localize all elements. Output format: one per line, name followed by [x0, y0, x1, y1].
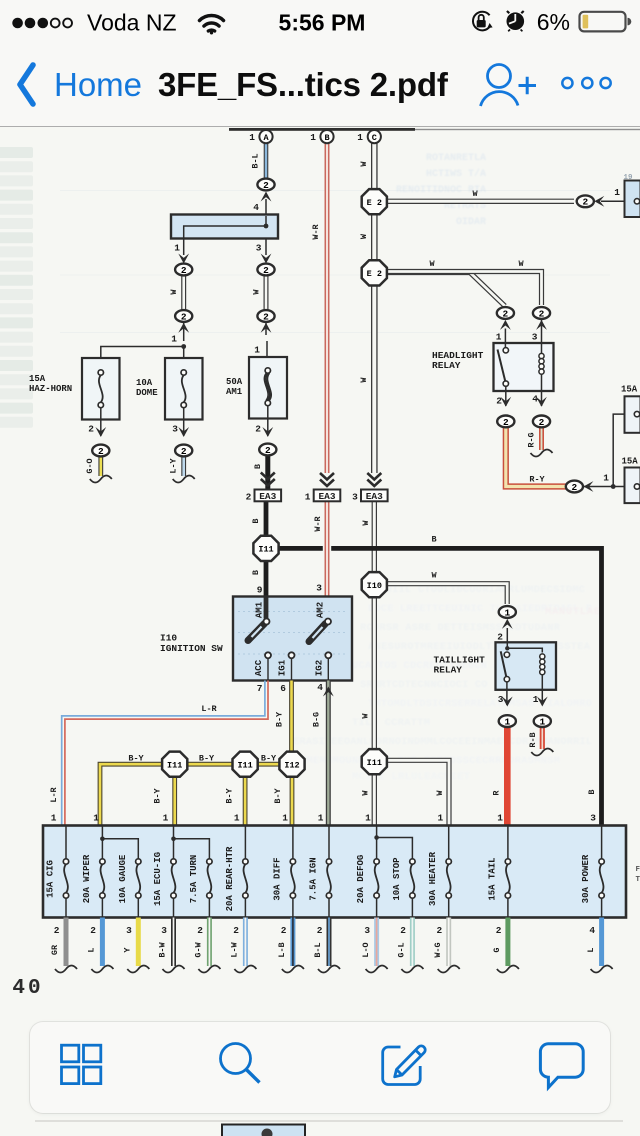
headlight relay coil [539, 343, 544, 391]
svg-text:10A STOP: 10A STOP [392, 857, 402, 901]
wire lead into right edge box [601, 200, 625, 202]
svg-text:AM1: AM1 [226, 387, 243, 397]
ignition switch contact AM1 [248, 619, 270, 641]
svg-text:EA3: EA3 [366, 491, 383, 502]
component box 15A (lower right) [625, 468, 640, 504]
wire R-G stub [539, 427, 544, 450]
connector 2 (R-Y to fuses) [566, 481, 583, 493]
connector octagon I10 (I10 on W wire) [362, 572, 387, 597]
wire B-W stub [171, 918, 176, 967]
svg-text:L-O: L-O [361, 942, 371, 957]
wire B-Y from IG1 to I12 [289, 681, 294, 753]
svg-text:B-Y: B-Y [153, 787, 163, 803]
wire G-L stub [410, 918, 415, 967]
wire B-Y bus to WIPER / ECU-IG / REAR-HTR / DIFF fuses [100, 764, 292, 825]
fuse 20A WIPER [82, 826, 105, 918]
wire end (L-Y) [173, 476, 195, 483]
svg-text:L: L [586, 947, 596, 952]
fuse 30A DIFF [272, 826, 295, 918]
connector 2 right branch lower [257, 310, 274, 322]
connector 2 below HAZ-HORN [92, 445, 109, 457]
wire end (W-G) [438, 966, 460, 973]
wire end (G-W) [198, 966, 220, 973]
wire R-Y from headlight relay to 15A fuse [506, 427, 566, 486]
component box (right edge, E2 target) [625, 181, 640, 218]
wire A column into junction block [265, 199, 267, 215]
wire G stub [505, 918, 510, 967]
page bleed-through text (middle) [293, 584, 600, 783]
alarm clock icon [507, 11, 525, 31]
connector 2 below DOME [175, 445, 192, 457]
connector 2 (R-G wire) [533, 416, 550, 428]
fuse element 50A AM1 [264, 368, 271, 406]
svg-text:2: 2 [246, 492, 252, 503]
wire arrowhead (into connector below headlight relay (R-G)) [536, 397, 547, 407]
fuse 20A REAR-HTR [225, 826, 248, 918]
svg-text:15A TAIL: 15A TAIL [487, 857, 497, 900]
svg-text:2: 2 [197, 925, 203, 936]
svg-text:1: 1 [310, 132, 316, 143]
fuse 10A STOP [392, 857, 415, 918]
svg-text:15A: 15A [622, 457, 639, 467]
svg-text:2: 2 [98, 446, 104, 457]
wire headlight relay pin 1 lead [504, 329, 506, 348]
connector 2 (to right box) [577, 195, 594, 207]
connector circle C [368, 130, 381, 143]
wire end (Y) [127, 966, 149, 973]
wire arrowhead (into connector left branch lower) [178, 323, 189, 333]
svg-text:2: 2 [263, 311, 269, 322]
svg-text:40: 40 [12, 977, 43, 1000]
svg-text:7.5A TURN: 7.5A TURN [189, 855, 199, 904]
wire L-O stub [374, 918, 379, 967]
svg-text:1: 1 [171, 334, 177, 345]
taillight relay internal node [505, 646, 542, 652]
wire W from E2 to headlight relay pin 3 [386, 272, 542, 306]
node junction (15A fuse feed) [611, 484, 616, 489]
svg-text:1: 1 [305, 492, 311, 503]
svg-text:10A GAUGE: 10A GAUGE [118, 854, 128, 903]
svg-text:4: 4 [317, 682, 323, 693]
svg-text:RCURSR ASRE DETTEISMSSRCDTUDAN: RCURSR ASRE DETTEISMSSRCDTUDANR [360, 622, 561, 634]
svg-text:W: W [169, 289, 179, 295]
svg-text:C: C [372, 133, 377, 143]
svg-text:Voda NZ: Voda NZ [87, 10, 177, 36]
svg-text:I12: I12 [284, 760, 299, 770]
svg-text:W: W [361, 713, 371, 719]
connector octagon E 2 (E2 lower) [362, 260, 387, 285]
connector octagon I11 (I11 on B-Y bus (right)) [233, 752, 258, 777]
wire B-L stub [327, 918, 332, 967]
fuse box 50A AM1 [249, 357, 287, 419]
wire B-G from IG2 to 7.5A IGN fuse [326, 681, 331, 826]
svg-text:1: 1 [234, 813, 240, 824]
svg-text:W: W [429, 259, 435, 269]
wire G-O stub [98, 457, 103, 477]
svg-text:B-Y: B-Y [128, 754, 144, 764]
svg-text:3: 3 [161, 925, 167, 936]
svg-text:2: 2 [281, 925, 287, 936]
comment bubble icon [540, 1044, 583, 1088]
more options dots [562, 78, 610, 88]
connector 2 left branch lower [175, 310, 192, 322]
svg-text:3: 3 [126, 925, 132, 936]
page rule line (bottom) [35, 1120, 623, 1122]
wire feed to 15A HAZ-HORN [101, 347, 184, 359]
signal strength dots [12, 18, 72, 29]
wire arrowhead (into connector headlight pin1 feed) [500, 320, 511, 330]
svg-text:MANUTLAE: MANUTLAE [545, 606, 600, 618]
wire G-W stub [207, 918, 212, 967]
fuse element 10A DOME [181, 370, 186, 408]
svg-text:30A POWER: 30A POWER [581, 854, 591, 903]
svg-text:7: 7 [257, 683, 263, 694]
connector EA3 (2) [246, 490, 282, 503]
wire 15A HAZ-HORN output lead [100, 408, 102, 436]
svg-text:2: 2 [181, 446, 187, 457]
wire feed to 10A DOME [183, 347, 185, 359]
svg-text:B-Y: B-Y [275, 711, 285, 727]
headlight relay switch [498, 348, 509, 387]
wire arrowhead (into connector right branch) [261, 254, 272, 264]
wire arrowhead (into connector from right box) [594, 196, 604, 207]
connector 1 (R wire) [499, 715, 516, 727]
svg-text:2: 2 [263, 180, 269, 191]
ignition switch terminal ACC [265, 652, 271, 680]
wire branch to upper 15A fuse [613, 414, 624, 486]
connector octagon I11 (I11 on B wire) [253, 536, 278, 561]
svg-text:B: B [251, 518, 261, 523]
ignition switch contact AM2 [309, 619, 331, 642]
wire arrowhead (into connector below AM1) [262, 427, 273, 437]
wire headlight relay pin 4 lead [541, 391, 543, 406]
wire AM2 feed inside ignition switch [327, 597, 329, 619]
wire arrowhead (into connector below HAZ-HORN) [95, 427, 106, 437]
headlight relay box [494, 343, 554, 391]
svg-text:G: G [492, 947, 502, 952]
svg-text:ACC: ACC [254, 659, 264, 676]
wire taillight relay pin 3 lead [506, 682, 508, 705]
svg-text:2: 2 [90, 925, 96, 936]
svg-text:W-G: W-G [433, 942, 443, 957]
wire W-R white gap at crossing [323, 502, 331, 597]
wire arrowhead (into connector above junction block) [261, 192, 272, 202]
svg-text:3: 3 [172, 424, 178, 435]
taillight relay coil [540, 654, 545, 690]
svg-text:ANESUROTMREEIUIODLTILTMUOSDSRS: ANESUROTMREEIUIODLTILTMUOSDSRSSTEA [368, 641, 591, 653]
wire end (L-O) [366, 966, 388, 973]
svg-text:2: 2 [539, 417, 545, 428]
thumbnails grid icon [62, 1045, 101, 1083]
wire Y stub [136, 918, 141, 967]
connector octagon I11 (I11 on B-Y bus (left)) [162, 752, 187, 777]
wire 10A DOME output lead [183, 408, 185, 436]
svg-text:B-Y: B-Y [199, 754, 215, 764]
page top edge bar [229, 128, 640, 131]
junction block (bus bar) [171, 215, 278, 239]
connector 2 left branch upper [175, 264, 192, 276]
svg-text:2: 2 [263, 265, 269, 276]
wire headlight relay pin 2 lead [505, 386, 507, 406]
wire end (R-G) [531, 450, 553, 457]
svg-text:B: B [251, 570, 261, 575]
svg-text:W: W [472, 189, 478, 199]
wire end (B-L) [318, 966, 340, 973]
svg-text:W: W [435, 790, 445, 796]
annotate icon [383, 1046, 426, 1085]
svg-text:2: 2 [265, 445, 271, 456]
svg-text:2: 2 [181, 311, 187, 322]
ignition switch I10 box [233, 597, 352, 681]
svg-text:G-L: G-L [397, 942, 407, 957]
svg-text:3: 3 [498, 694, 504, 705]
svg-text:1: 1 [497, 813, 503, 824]
svg-text:4: 4 [253, 202, 259, 213]
wire right branch lead [265, 322, 267, 335]
wire R (taillight relay to 15A TAIL fuse) [504, 727, 511, 825]
svg-text:1: 1 [163, 813, 169, 824]
svg-text:3: 3 [352, 492, 358, 503]
svg-text:B: B [253, 464, 263, 469]
junction wire ECU.IG-TURN [171, 837, 209, 859]
page bleed-through (left margin) [0, 147, 33, 428]
wire L-B stub [290, 918, 295, 967]
wire W-G stub [446, 918, 451, 967]
svg-text:1: 1 [504, 607, 510, 618]
svg-text:L-R: L-R [49, 786, 59, 802]
wire L-W stub [243, 918, 248, 967]
fuse 15A CIG [46, 826, 69, 918]
svg-text:30A HEATER: 30A HEATER [428, 851, 438, 906]
svg-text:RELAY: RELAY [434, 665, 463, 676]
wire L-R (ACC to 15A CIG fuse) [62, 681, 268, 826]
scan streaks [60, 191, 610, 333]
continuation chevrons (W into EA3) [367, 473, 381, 486]
svg-text:2: 2 [233, 925, 239, 936]
fuse 15A ECU-IG [153, 826, 176, 918]
taillight relay box [496, 642, 557, 690]
wire L stub [100, 918, 105, 967]
svg-text:RELAY: RELAY [432, 360, 461, 371]
svg-text:I11: I11 [258, 545, 273, 555]
fuse 7.5A IGN [309, 826, 332, 918]
fuse 15A TAIL [487, 826, 510, 918]
wire GR stub [64, 918, 69, 967]
share / add person icon [481, 65, 537, 107]
fuse box (bottom, main fuse block) [43, 826, 626, 918]
wire feed to 50A AM1 [266, 341, 268, 357]
continuation chevrons (B into EA3) [261, 473, 275, 486]
svg-text:HAZ-HORN: HAZ-HORN [29, 384, 72, 394]
svg-text:2: 2 [539, 308, 545, 319]
wire W-R from connector B to EA3 [325, 143, 330, 473]
wire AM1 feed inside ignition switch [264, 597, 269, 619]
svg-text:T: T [635, 876, 640, 884]
fuse 30A HEATER [428, 826, 451, 918]
svg-text:2: 2 [54, 925, 60, 936]
svg-text:3: 3 [256, 243, 262, 254]
svg-text:2: 2 [317, 925, 323, 936]
svg-text:1: 1 [533, 694, 539, 705]
svg-text:A: A [263, 133, 269, 143]
svg-text:I11: I11 [167, 760, 182, 770]
svg-text:3: 3 [590, 813, 596, 824]
svg-text:L: L [87, 947, 97, 952]
junction wire DEFOG-STOP [374, 835, 412, 859]
wire left branch lead [183, 322, 185, 341]
svg-text:I10: I10 [367, 581, 382, 591]
svg-text:L-Y: L-Y [169, 457, 179, 473]
wire W-R from EA3 to ignition switch AM2 [325, 502, 330, 597]
svg-text:1: 1 [254, 345, 260, 356]
component box 15A (upper right) [625, 396, 640, 433]
battery icon [580, 12, 632, 32]
svg-text:I11: I11 [237, 760, 252, 770]
svg-text:E 2: E 2 [367, 198, 382, 208]
connector circle A [259, 130, 272, 143]
svg-text:15A: 15A [29, 374, 46, 384]
svg-text:I10: I10 [160, 633, 177, 644]
svg-text:W: W [518, 259, 524, 269]
svg-text:2: 2 [572, 482, 578, 493]
svg-text:L-B: L-B [277, 942, 287, 957]
svg-text:2: 2 [503, 417, 509, 428]
svg-text:9: 9 [257, 585, 263, 596]
svg-text:W: W [359, 377, 369, 383]
svg-text:W: W [359, 233, 369, 239]
wifi icon [200, 16, 224, 35]
svg-text:GR: GR [50, 944, 60, 955]
svg-text:IG1: IG1 [278, 659, 288, 676]
wire junction block pin 3 lead [265, 239, 267, 256]
connector 2 (A column) [257, 179, 274, 191]
svg-text:Y: Y [123, 947, 133, 953]
wire W between connectors (right branch) [264, 275, 269, 311]
svg-text:B: B [431, 535, 436, 545]
svg-text:1: 1 [51, 813, 57, 824]
wire arrowhead (into connector below taillight relay (R)) [502, 697, 513, 707]
svg-text:W: W [361, 790, 371, 796]
continuation chevrons (W-R into EA3) [320, 473, 334, 486]
wire taillight relay pin 1 lead [541, 690, 543, 705]
wire arrowhead (into connector right branch lower) [261, 323, 272, 333]
svg-text:2: 2 [496, 396, 502, 407]
svg-text:2: 2 [496, 925, 502, 936]
svg-text:W: W [359, 161, 369, 167]
svg-text:HCTIWS T/A: HCTIWS T/A [426, 168, 486, 180]
svg-text:EA3: EA3 [259, 491, 276, 502]
svg-text:1: 1 [614, 187, 620, 198]
fuse 10A GAUGE [118, 854, 141, 917]
wire R-B stub [540, 727, 545, 749]
wire end (L) [91, 966, 113, 973]
page bleed-through text (top right) [396, 153, 486, 228]
svg-text:B: B [324, 133, 329, 143]
svg-text:EA3: EA3 [318, 491, 335, 502]
svg-text:I11: I11 [367, 758, 382, 768]
svg-text:15A ECU-IG: 15A ECU-IG [153, 852, 163, 906]
wire W from E2 to headlight relay pin 1 [386, 273, 505, 307]
svg-text:15A: 15A [621, 385, 638, 395]
svg-text:AM2: AM2 [316, 602, 326, 618]
wire junction block pin 1 lead [183, 239, 185, 256]
wire B (EA3 to I11, ignition switch AM1, 30A POWER) [266, 502, 602, 826]
svg-text:1: 1 [93, 813, 99, 824]
wire W from EA3 to I10 / I11 / DEFOG fuse [372, 502, 377, 826]
wire arrowhead (into connector headlight pin3 feed) [536, 320, 547, 330]
taillight relay switch [501, 651, 510, 682]
svg-text:1: 1 [174, 243, 180, 254]
fuse 30A POWER [581, 826, 604, 918]
svg-text:L-W: L-W [230, 941, 240, 957]
svg-text:1: 1 [496, 332, 502, 343]
junction wire WIPER-GAUGE [100, 837, 138, 859]
svg-text:R-G: R-G [527, 432, 537, 447]
svg-text:B-Y: B-Y [261, 754, 277, 764]
svg-text:3: 3 [532, 332, 538, 343]
svg-text:ROTANRETLA: ROTANRETLA [426, 153, 486, 164]
svg-text:2: 2 [181, 265, 187, 276]
svg-text:4: 4 [589, 925, 595, 936]
svg-text:W: W [252, 289, 262, 295]
wire end (R-B) [531, 749, 553, 756]
wire end (G-O) [90, 476, 112, 483]
svg-text:2: 2 [582, 197, 588, 208]
svg-text:6%: 6% [537, 9, 570, 35]
wire headlight relay pin 3 lead [541, 319, 543, 343]
svg-text:2: 2 [255, 424, 261, 435]
wire arrowhead (into connector left branch) [178, 254, 189, 264]
wire end (G-L) [401, 966, 423, 973]
wire arrowhead (into connector below headlight relay (R-Y)) [500, 397, 511, 407]
svg-text:B-L: B-L [251, 153, 261, 168]
svg-text:B-Y: B-Y [225, 787, 235, 803]
wire arrowhead (into connector above taillight relay) [502, 619, 513, 629]
svg-text:19: 19 [623, 174, 633, 182]
node junction (HAZ-HORN / DOME feed) [181, 344, 186, 349]
wire end (G) [497, 966, 519, 973]
connector octagon E 2 (E2 upper) [362, 189, 387, 214]
svg-text:Home: Home [54, 66, 142, 103]
connector 2 headlight pin3 feed [533, 307, 550, 319]
connector EA3 (3) [352, 490, 388, 503]
svg-text:OIDAR: OIDAR [456, 217, 486, 228]
svg-text:2: 2 [436, 925, 442, 936]
svg-text:6: 6 [280, 683, 286, 694]
fuse box 10A DOME [165, 358, 203, 420]
svg-text:G-W: G-W [194, 941, 204, 957]
svg-text:DOME: DOME [136, 388, 158, 398]
svg-text:ERASITEEOANLCORNOINDMMLCOCEEIN: ERASITEEOANLCORNOINDMMLCOCEEINMAEECDRIRM… [293, 736, 592, 748]
fuse 20A DEFOG [356, 826, 379, 918]
search icon [221, 1044, 260, 1083]
svg-text:50A: 50A [226, 377, 243, 387]
wire W between connectors (left branch) [181, 275, 186, 311]
connector 2 right branch upper [257, 264, 274, 276]
svg-text:R-B: R-B [528, 732, 538, 747]
svg-text:20A DEFOG: 20A DEFOG [356, 855, 366, 904]
svg-text:IGNITION SW: IGNITION SW [160, 643, 223, 654]
svg-text:B-Y: B-Y [273, 787, 283, 803]
wire end (L) [591, 966, 613, 973]
wire B (50A AM1 to EA3) [265, 455, 270, 490]
connector 1 above taillight relay [499, 606, 516, 618]
wire W from E2 to right connector [386, 199, 574, 204]
wire L stub [599, 918, 604, 967]
wire taillight relay pin 2 lead [506, 628, 508, 648]
connector 2 headlight pin1 feed [497, 307, 514, 319]
connector 1 (R-B wire) [534, 715, 551, 727]
